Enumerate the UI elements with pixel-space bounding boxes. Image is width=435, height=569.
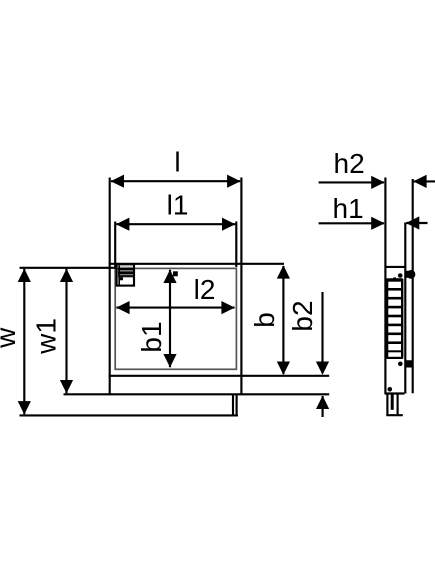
- rib slot 5: [388, 317, 401, 323]
- rib slot 2: [388, 291, 401, 297]
- arrowhead h1 left(pointing right): [371, 217, 384, 230]
- svg-text:b1: b1: [136, 321, 167, 352]
- arrowhead w top: [18, 269, 31, 282]
- h2 tail right: [413, 180, 435, 182]
- dimension line l1: [116, 223, 235, 225]
- arrowhead l right: [227, 175, 240, 188]
- arrowhead b1 bottom: [163, 354, 176, 367]
- drain box dot: [120, 277, 123, 280]
- rib slot 1: [388, 282, 401, 288]
- dimension line l: [111, 180, 240, 182]
- wall clamp top: [407, 270, 416, 279]
- arrowhead l1 right: [222, 218, 235, 231]
- screw dot bottom: [398, 362, 403, 367]
- svg-text:h1: h1: [333, 193, 364, 224]
- dimension line w: [23, 269, 25, 414]
- wall clamp top inner block: [405, 271, 412, 278]
- svg-text:h2: h2: [334, 148, 365, 179]
- drain pipe left wall: [386, 394, 388, 416]
- drain box outline (top-left of square): [117, 264, 134, 285]
- arrowhead b top: [277, 265, 290, 278]
- wall line / h2 extension: [412, 179, 414, 393]
- svg-text:l1: l1: [167, 190, 189, 221]
- drain pipe center bar: [391, 394, 394, 410]
- inner square (shower surface): [115, 268, 236, 369]
- arrowhead w bottom: [18, 401, 31, 414]
- svg-text:w1: w1: [31, 318, 62, 355]
- up-arrow below plate: [316, 396, 329, 409]
- drain pipe foot line: [386, 414, 403, 416]
- arrowhead h2 left(pointing right): [371, 176, 384, 189]
- svg-text:b: b: [249, 312, 280, 328]
- rib slot 8: [388, 344, 401, 350]
- dimension line l2: [116, 307, 234, 309]
- wall clamp bottom: [405, 360, 413, 367]
- h1 dimension line left segment: [319, 222, 384, 224]
- rib slot 3: [388, 300, 401, 306]
- arrowhead l left: [111, 175, 124, 188]
- drain box stripe 3: [118, 275, 133, 277]
- rib slot 7: [388, 335, 401, 341]
- arrowhead l1 left: [116, 218, 129, 231]
- bottom plate top line / w1 reference: [64, 393, 330, 395]
- small square mark near b1 top: [173, 271, 178, 276]
- dimension line w1: [65, 269, 67, 393]
- svg-text:l2: l2: [194, 274, 216, 305]
- drain box striped backdrop: [118, 267, 133, 278]
- side view left edge / h extension: [384, 178, 386, 394]
- screw dot lower body: [388, 387, 393, 392]
- arrowhead l2 right: [221, 301, 234, 314]
- arrowhead w1 top: [60, 269, 73, 282]
- arrowhead b bottom: [277, 362, 290, 375]
- dimension line b: [282, 266, 284, 374]
- arrowhead h1 right(pointing left): [406, 216, 419, 229]
- svg-text:w: w: [0, 327, 21, 349]
- screw dot top: [398, 273, 403, 278]
- extension line l1 left: [114, 222, 116, 268]
- arrowhead w1 bottom: [60, 380, 73, 393]
- front view outer square top edge: [109, 263, 284, 265]
- svg-text:l: l: [174, 147, 180, 178]
- bottom plate bottom line / w reference: [20, 414, 239, 416]
- arrowhead b2 bottom: [316, 362, 329, 375]
- extension line l1 right: [235, 222, 237, 268]
- drain pipe right wall: [397, 394, 399, 415]
- side view right edge / h1 extension: [404, 223, 406, 394]
- arrowhead l2 left: [116, 301, 129, 314]
- drain box inner vertical: [118, 266, 120, 285]
- rib slot 6: [388, 326, 401, 332]
- extension line w top: [20, 267, 117, 269]
- front view outer square bottom edge: [109, 375, 330, 377]
- arrowhead b1 top: [163, 270, 176, 283]
- cassette top notch: [393, 277, 396, 279]
- side view top face: [385, 266, 405, 268]
- rib slot 4: [388, 308, 401, 314]
- arrowhead h2 right(pointing left): [413, 175, 426, 188]
- leader line of bottom up-arrow: [322, 396, 324, 417]
- svg-text:b2: b2: [287, 300, 318, 331]
- bottom plate right end inner vertical: [232, 394, 234, 415]
- rib cassette body: [386, 278, 403, 359]
- front view outer square left edge: [109, 178, 111, 395]
- rib slot 9: [388, 352, 401, 357]
- dimension line b1: [169, 270, 171, 367]
- h2 dimension line left segment: [319, 181, 384, 183]
- dimension line b2: [321, 292, 323, 373]
- front view outer square right edge: [240, 178, 242, 395]
- drain box stripe 2: [118, 271, 133, 274]
- bottom plate right end outer vertical: [236, 394, 238, 415]
- h1 tail right: [406, 222, 427, 224]
- side view bottom face: [385, 392, 405, 394]
- drain box stripe 1: [118, 268, 133, 270]
